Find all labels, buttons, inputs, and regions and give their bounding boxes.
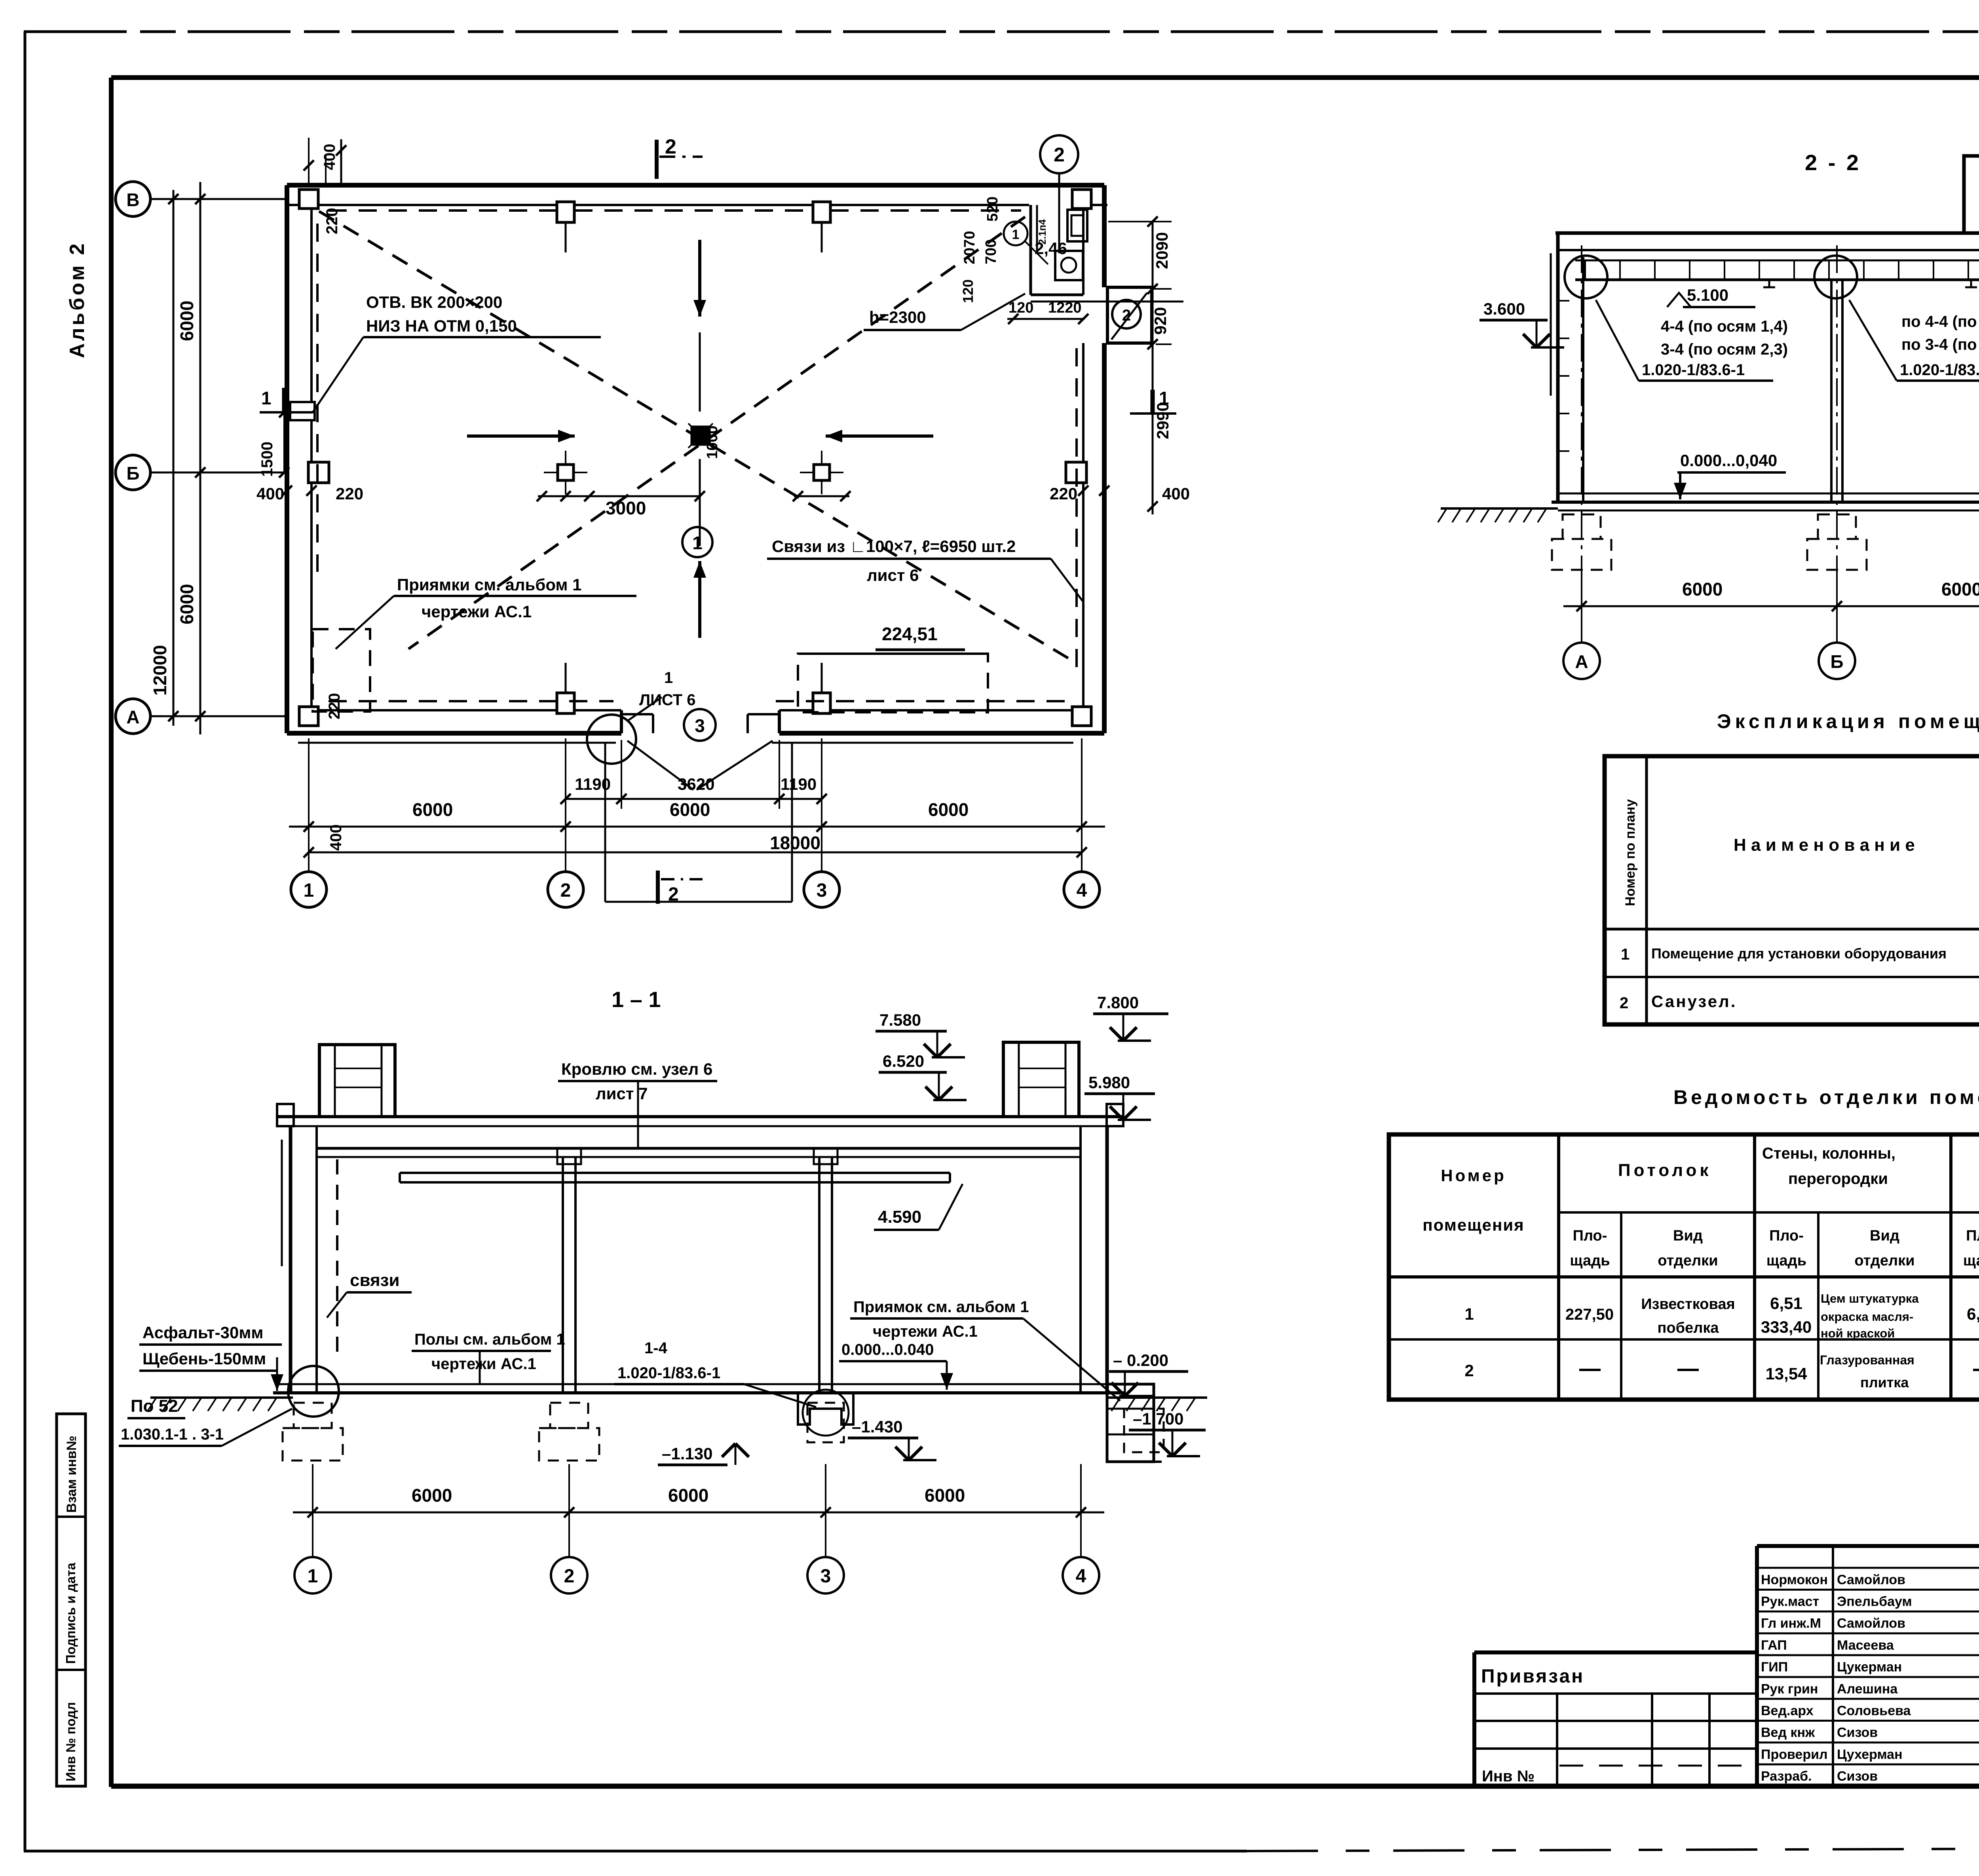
svg-text:4: 4 [1077, 880, 1087, 901]
svg-text:3000: 3000 [606, 498, 646, 518]
svg-text:Самойлов: Самойлов [1837, 1572, 1905, 1587]
svg-text:1: 1 [308, 1566, 318, 1587]
svg-text:Пло-: Пло- [1769, 1227, 1804, 1244]
svg-text:Нормокон: Нормокон [1761, 1572, 1828, 1587]
svg-text:1: 1 [692, 533, 703, 553]
svg-text:3: 3 [820, 1566, 831, 1587]
svg-text:Цем штукатурка: Цем штукатурка [1821, 1292, 1919, 1305]
svg-text:Разраб.: Разраб. [1761, 1769, 1812, 1784]
svg-text:1: 1 [261, 388, 272, 408]
svg-text:Гл инж.М: Гл инж.М [1761, 1616, 1821, 1631]
svg-text:7.800: 7.800 [1097, 993, 1139, 1012]
svg-text:6000: 6000 [412, 1485, 452, 1506]
svg-text:Номер по плану: Номер по плану [1623, 799, 1638, 906]
svg-text:щадь: щадь [1570, 1252, 1610, 1269]
svg-text:Масеева: Масеева [1837, 1638, 1894, 1653]
svg-text:связи: связи [350, 1271, 400, 1290]
svg-text:Вид: Вид [1673, 1227, 1703, 1244]
svg-text:–1.130: –1.130 [662, 1444, 712, 1463]
svg-text:Инв №: Инв № [1482, 1768, 1535, 1785]
svg-text:побелка: побелка [1657, 1320, 1719, 1336]
svg-text:2: 2 [668, 884, 679, 905]
svg-text:1: 1 [664, 669, 673, 687]
svg-text:400: 400 [1162, 484, 1190, 503]
svg-text:Алешина: Алешина [1837, 1681, 1898, 1696]
svg-text:Номер: Номер [1441, 1166, 1506, 1185]
svg-text:Эпельбаум: Эпельбаум [1837, 1594, 1912, 1609]
svg-text:отделки: отделки [1854, 1252, 1914, 1269]
svg-text:помещения: помещения [1423, 1216, 1524, 1234]
svg-text:2: 2 [1464, 1361, 1474, 1380]
svg-text:2: 2 [560, 880, 571, 901]
svg-text:Самойлов: Самойлов [1837, 1616, 1905, 1631]
svg-text:ОТВ. ВК 200×200: ОТВ. ВК 200×200 [366, 293, 502, 311]
svg-text:А: А [126, 707, 139, 727]
svg-text:Сизов: Сизов [1837, 1725, 1878, 1740]
svg-text:2: 2 [564, 1566, 575, 1587]
svg-text:чертежи АС.1: чертежи АС.1 [431, 1355, 536, 1373]
svg-text:лист 7: лист 7 [596, 1084, 648, 1103]
svg-text:1: 1 [1621, 946, 1630, 963]
svg-text:окраска масля-: окраска масля- [1821, 1310, 1913, 1324]
svg-text:НИЗ НА ОТМ 0,150: НИЗ НА ОТМ 0,150 [366, 317, 517, 335]
svg-text:400: 400 [256, 484, 284, 503]
svg-text:13,54: 13,54 [1765, 1364, 1807, 1383]
svg-text:6000: 6000 [928, 799, 969, 820]
svg-text:Приямки см. альбом 1: Приямки см. альбом 1 [397, 575, 582, 594]
svg-text:6000: 6000 [925, 1485, 965, 1506]
svg-text:4: 4 [1076, 1566, 1086, 1587]
svg-text:1190: 1190 [781, 775, 817, 793]
svg-text:чертежи АС.1: чертежи АС.1 [422, 602, 532, 621]
svg-text:Инв № подл: Инв № подл [63, 1702, 78, 1781]
svg-text:6.520: 6.520 [883, 1052, 924, 1070]
svg-text:Взам инв№: Взам инв№ [64, 1436, 79, 1513]
svg-text:чертежи АС.1: чертежи АС.1 [873, 1323, 978, 1340]
svg-text:6000: 6000 [1941, 579, 1979, 599]
svg-text:1000: 1000 [704, 425, 721, 459]
svg-text:4.590: 4.590 [878, 1207, 921, 1227]
svg-text:А: А [1575, 651, 1588, 672]
svg-text:700: 700 [983, 239, 999, 264]
svg-text:Привязан: Привязан [1481, 1666, 1584, 1687]
svg-text:Помещение для установки оборуд: Помещение для установки оборудования [1651, 945, 1947, 962]
svg-text:Кровлю см. узел 6: Кровлю см. узел 6 [561, 1060, 712, 1078]
svg-text:3620: 3620 [678, 775, 714, 793]
svg-text:400: 400 [321, 144, 338, 170]
svg-text:перегородки: перегородки [1788, 1170, 1888, 1187]
svg-text:щадь: щадь [1963, 1252, 1979, 1269]
svg-text:220: 220 [326, 693, 343, 719]
svg-text:Экспликация помещений: Экспликация помещений [1717, 710, 1979, 732]
svg-text:Ведомость отделки помещений: Ведомость отделки помещений [1673, 1086, 1979, 1108]
svg-text:Приямок см. альбом 1: Приямок см. альбом 1 [853, 1298, 1029, 1316]
svg-text:Альбом 2: Альбом 2 [66, 241, 89, 358]
svg-text:Полы см. альбом 1: Полы см. альбом 1 [414, 1331, 565, 1348]
svg-text:1.020-1/83.6-1: 1.020-1/83.6-1 [1642, 361, 1745, 379]
svg-text:Вед кнж: Вед кнж [1761, 1725, 1815, 1740]
svg-text:7.580: 7.580 [879, 1011, 921, 1029]
svg-text:5.980: 5.980 [1088, 1073, 1130, 1092]
svg-text:–1.430: –1.430 [852, 1417, 902, 1436]
svg-text:В: В [126, 190, 139, 210]
svg-text:по 3-4 (по осям 1,3): по 3-4 (по осям 1,3) [1901, 336, 1979, 353]
svg-text:Санузел.: Санузел. [1651, 992, 1737, 1011]
svg-text:2070: 2070 [961, 231, 978, 264]
svg-text:ЛИСТ 6: ЛИСТ 6 [639, 691, 696, 709]
svg-text:Вед.арх: Вед.арх [1761, 1703, 1814, 1718]
svg-text:3.600: 3.600 [1483, 300, 1525, 318]
svg-text:1.020-1/83.6-1: 1.020-1/83.6-1 [1900, 361, 1979, 379]
svg-text:120: 120 [960, 279, 976, 303]
svg-text:по 4-4 (по осям 1,4): по 4-4 (по осям 1,4) [1901, 313, 1979, 330]
svg-text:3: 3 [695, 715, 705, 736]
svg-text:По 52: По 52 [131, 1396, 178, 1416]
svg-text:6000: 6000 [177, 584, 197, 624]
svg-text:Подпись и дата: Подпись и дата [63, 1563, 78, 1664]
svg-text:224,51: 224,51 [882, 624, 938, 644]
svg-text:ной краской: ной краской [1821, 1326, 1895, 1340]
svg-text:333,40: 333,40 [1761, 1318, 1812, 1336]
svg-text:Б: Б [126, 463, 139, 484]
svg-text:1: 1 [1012, 227, 1020, 242]
svg-text:6000: 6000 [412, 799, 453, 820]
svg-text:Глазурованная: Глазурованная [1820, 1353, 1914, 1367]
svg-text:0.000...0,040: 0.000...0,040 [1680, 451, 1777, 470]
svg-text:Проверил: Проверил [1761, 1747, 1828, 1762]
svg-text:h=2300: h=2300 [869, 308, 926, 326]
svg-text:ГАП: ГАП [1761, 1638, 1787, 1653]
svg-text:Пло-: Пло- [1573, 1227, 1607, 1244]
svg-text:Б: Б [1830, 651, 1843, 672]
svg-text:ГИП: ГИП [1761, 1660, 1788, 1675]
svg-text:220: 220 [1050, 484, 1077, 503]
svg-text:1-4: 1-4 [644, 1339, 668, 1357]
svg-text:2 - 2: 2 - 2 [1805, 150, 1861, 175]
svg-text:6000: 6000 [668, 1485, 708, 1506]
svg-text:1.020-1/83.6-1: 1.020-1/83.6-1 [617, 1364, 720, 1382]
svg-text:Щебень-150мм: Щебень-150мм [142, 1349, 266, 1368]
svg-text:1500: 1500 [258, 442, 276, 477]
svg-text:Сизов: Сизов [1837, 1769, 1878, 1784]
svg-text:лист 6: лист 6 [867, 566, 919, 584]
svg-text:6000: 6000 [670, 799, 710, 820]
svg-text:1: 1 [304, 880, 314, 901]
svg-text:0.000...0.040: 0.000...0.040 [841, 1341, 934, 1358]
svg-text:щадь: щадь [1766, 1252, 1806, 1269]
svg-text:1 – 1: 1 – 1 [612, 987, 661, 1012]
svg-text:–1.700: –1.700 [1133, 1409, 1183, 1428]
svg-text:Рук.маст: Рук.маст [1761, 1594, 1819, 1609]
svg-text:отделки: отделки [1658, 1252, 1718, 1269]
svg-text:Стены, колонны,: Стены, колонны, [1762, 1145, 1895, 1162]
svg-text:2: 2 [1054, 144, 1065, 166]
svg-text:5.100: 5.100 [1687, 286, 1728, 304]
svg-text:Цухерман: Цухерман [1837, 1747, 1903, 1762]
svg-text:920: 920 [1151, 307, 1170, 335]
svg-text:2090: 2090 [1153, 232, 1171, 269]
svg-text:120: 120 [1008, 300, 1033, 316]
svg-text:220: 220 [336, 484, 363, 503]
svg-text:1220: 1220 [1048, 300, 1082, 316]
svg-text:2990: 2990 [1153, 402, 1172, 439]
svg-text:Известковая: Известковая [1641, 1296, 1735, 1313]
svg-text:12000: 12000 [150, 645, 170, 696]
svg-text:220: 220 [323, 208, 341, 234]
svg-text:Рук грин: Рук грин [1761, 1681, 1818, 1696]
svg-text:Вид: Вид [1870, 1227, 1899, 1244]
svg-text:1: 1 [1464, 1305, 1474, 1323]
svg-text:520: 520 [984, 197, 1001, 222]
svg-text:6000: 6000 [1682, 579, 1723, 599]
svg-text:Н а и м е н о в а н и е: Н а и м е н о в а н и е [1734, 835, 1915, 855]
svg-text:6,51: 6,51 [1770, 1294, 1802, 1313]
svg-text:227,50: 227,50 [1565, 1306, 1614, 1323]
svg-text:2.1п4: 2.1п4 [1037, 219, 1048, 245]
svg-text:Потолок: Потолок [1618, 1161, 1711, 1180]
svg-text:Соловьева: Соловьева [1837, 1703, 1911, 1718]
svg-text:6000: 6000 [177, 301, 197, 341]
svg-text:2: 2 [1620, 994, 1628, 1012]
svg-text:– 0.200: – 0.200 [1113, 1351, 1168, 1370]
svg-text:Пло-: Пло- [1966, 1227, 1979, 1244]
svg-text:4-4 (по осям 1,4): 4-4 (по осям 1,4) [1661, 318, 1788, 335]
svg-text:3: 3 [817, 880, 827, 901]
svg-text:плитка: плитка [1860, 1374, 1909, 1390]
svg-text:2: 2 [665, 135, 676, 158]
svg-text:3-4 (по осям 2,3): 3-4 (по осям 2,3) [1661, 341, 1788, 358]
svg-text:400: 400 [327, 824, 345, 851]
svg-text:1.030.1-1 . 3-1: 1.030.1-1 . 3-1 [121, 1426, 224, 1443]
svg-text:6,60: 6,60 [1967, 1305, 1979, 1323]
svg-text:18000: 18000 [770, 833, 820, 853]
svg-text:Связи из ∟100×7, ℓ=6950 шт.2: Связи из ∟100×7, ℓ=6950 шт.2 [772, 537, 1016, 556]
svg-text:Цукерман: Цукерман [1837, 1660, 1902, 1675]
svg-text:Асфальт-30мм: Асфальт-30мм [142, 1323, 263, 1342]
svg-text:2: 2 [1122, 307, 1131, 324]
